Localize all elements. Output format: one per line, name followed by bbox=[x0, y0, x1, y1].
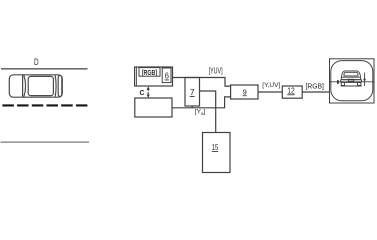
svg-text:12: 12 bbox=[287, 86, 295, 95]
svg-text:15: 15 bbox=[212, 143, 219, 152]
lane center dashed line bbox=[2, 104, 89, 106]
wire camera output YUV bbox=[173, 78, 231, 87]
svg-text:6: 6 bbox=[165, 71, 169, 81]
road bottom edge line bbox=[1, 141, 90, 143]
svg-text:[Y,UV]: [Y,UV] bbox=[262, 82, 280, 89]
display unit outer box bbox=[330, 59, 375, 103]
display screen bezel bbox=[331, 61, 373, 101]
wire box 12 to display bbox=[302, 91, 329, 93]
svg-text:[RGB]: [RGB] bbox=[142, 68, 158, 77]
svg-text:7: 7 bbox=[190, 87, 195, 97]
svg-text:D: D bbox=[34, 57, 39, 67]
processing box (unlabeled) bbox=[135, 98, 172, 117]
box 12 bbox=[282, 86, 302, 98]
display left lane tick bbox=[337, 80, 339, 84]
camera lens strip bbox=[135, 68, 137, 86]
control dashed double arrow C bbox=[147, 86, 150, 98]
camera RGB label box bbox=[139, 68, 160, 77]
wire box 7 bottom stub bbox=[191, 106, 193, 108]
svg-text:[RGB]: [RGB] bbox=[305, 83, 324, 90]
road top edge line bbox=[1, 68, 88, 70]
svg-text:C: C bbox=[139, 90, 144, 97]
box 7 bbox=[185, 78, 200, 107]
box 9 bbox=[231, 85, 258, 99]
wire box 9 to box 12 bbox=[258, 91, 282, 93]
display road horizon line bbox=[330, 81, 374, 83]
box 15 bbox=[203, 133, 231, 173]
svg-text:[YUV]: [YUV] bbox=[209, 66, 223, 75]
svg-text:[Ya]: [Ya] bbox=[195, 109, 206, 116]
display right pointer marker bbox=[363, 73, 366, 86]
car (top view) on road bbox=[9, 75, 62, 97]
wire Ya from processing box to box 9 bbox=[172, 97, 231, 108]
svg-text:9: 9 bbox=[243, 87, 247, 96]
display car rear view graphic bbox=[341, 71, 362, 86]
sensor box 6 bbox=[162, 68, 171, 83]
camera unit outer box bbox=[135, 67, 173, 86]
wire box 7 output down to box 15 bbox=[200, 91, 216, 133]
